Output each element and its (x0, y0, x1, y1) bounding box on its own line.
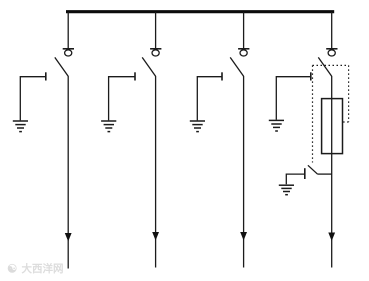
arrow feeder1 (65, 233, 72, 242)
wire earth branch QS4 (276, 77, 311, 120)
fuse FU1 (322, 99, 343, 154)
earth contact tick QS4 (310, 72, 312, 80)
svg-text:☯: ☯ (7, 264, 17, 276)
wire lower earth branch left (286, 174, 305, 184)
bushing circle QS1 (65, 50, 72, 56)
ground G2 (101, 121, 116, 132)
bushing circle QS3 (240, 50, 247, 56)
wire feeder3 outgoing (243, 76, 245, 268)
wire earth branch QS3 (197, 77, 222, 121)
svg-text:大西洋网: 大西洋网 (22, 262, 64, 275)
busbar (66, 10, 334, 13)
wire feeder1 outgoing (67, 76, 69, 269)
arrow feeder4 (328, 233, 335, 242)
earth contact tick ES4 lower (304, 168, 306, 179)
ground G3 (190, 121, 205, 132)
wire feeder4 drop from busbar (331, 12, 333, 49)
wire earth branch QS2 (109, 77, 135, 121)
earth contact tick QS2 (134, 72, 136, 80)
arrow feeder2 (152, 232, 159, 241)
wire feeder3 drop from busbar (243, 12, 245, 49)
wire feeder2 outgoing (155, 76, 157, 268)
wire earth branch QS1 (20, 77, 46, 121)
switch blade QS1 (55, 57, 68, 76)
wire feeder2 drop from busbar (155, 12, 157, 49)
bushing circle QS4 (328, 50, 335, 56)
wire lower earth branch right (318, 173, 332, 175)
ground G5 (279, 185, 294, 195)
switch blade QS3 (230, 57, 243, 76)
earth contact tick QS1 (45, 72, 47, 80)
bushing circle QS2 (152, 50, 159, 56)
dashed enclosure switch-fuse unit (313, 65, 349, 162)
switch blade QS4 (318, 57, 331, 76)
wire feeder1 drop from busbar (67, 12, 69, 49)
contact bar QS1 (63, 48, 74, 50)
arrow feeder3 (240, 232, 247, 241)
wire feeder4 outgoing (331, 76, 333, 268)
contact bar QS4 (326, 48, 337, 50)
ground G1 (13, 121, 28, 132)
contact bar QS2 (150, 48, 161, 50)
contact bar QS3 (238, 48, 249, 50)
switch blade QS2 (142, 57, 155, 76)
ground G4 (269, 120, 284, 131)
earth contact tick QS3 (221, 72, 223, 80)
switch blade ES4 lower (308, 165, 318, 174)
